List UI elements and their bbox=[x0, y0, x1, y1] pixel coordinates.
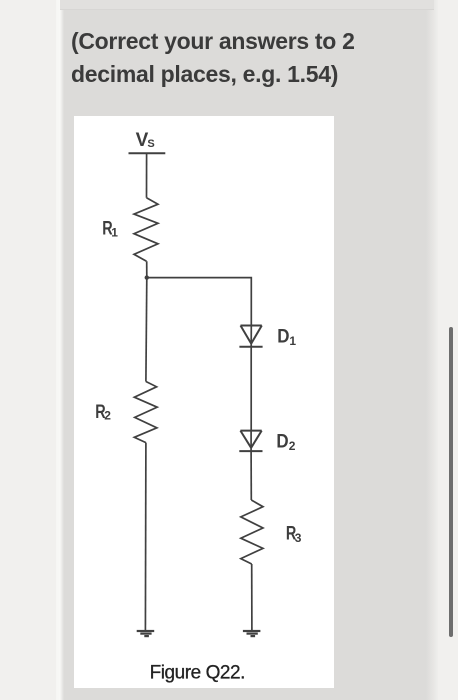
scrollbar bbox=[449, 327, 453, 637]
node A junction dot bbox=[145, 275, 149, 279]
wire Vs to R1 bbox=[146, 153, 148, 197]
diode D1 bbox=[239, 326, 262, 347]
wire node down to R2 bbox=[145, 278, 148, 382]
diode D2 bbox=[239, 431, 262, 452]
wire R1 to node bbox=[146, 261, 148, 277]
svg-text:3: 3 bbox=[295, 531, 302, 545]
resistor R3 bbox=[241, 500, 263, 564]
wire node to right branch bbox=[147, 278, 252, 326]
lighter top band bbox=[60, 0, 434, 10]
svg-text:Figure Q22.: Figure Q22. bbox=[150, 663, 245, 684]
ground (left) bbox=[137, 630, 155, 637]
wire D1 to D2 bbox=[250, 347, 252, 431]
svg-text:1: 1 bbox=[289, 334, 296, 348]
wire R2 to ground bbox=[144, 443, 147, 630]
svg-text:2: 2 bbox=[289, 439, 296, 453]
wire through D1 bbox=[250, 326, 252, 347]
svg-text:D: D bbox=[276, 429, 288, 451]
white figure panel bbox=[74, 116, 334, 688]
svg-text:2: 2 bbox=[104, 409, 111, 423]
header text bbox=[71, 25, 431, 90]
wire through D2 bbox=[250, 431, 252, 452]
wire R3 to ground bbox=[251, 564, 253, 630]
wire D2 to R3 bbox=[250, 451, 252, 500]
svg-text:1: 1 bbox=[111, 226, 118, 240]
resistor R1 bbox=[134, 198, 158, 262]
ground (right) bbox=[243, 630, 261, 637]
svg-text:S: S bbox=[147, 138, 154, 150]
resistor R2 bbox=[134, 382, 157, 443]
source Vs terminal bar bbox=[129, 152, 166, 154]
svg-text:D: D bbox=[277, 325, 289, 347]
